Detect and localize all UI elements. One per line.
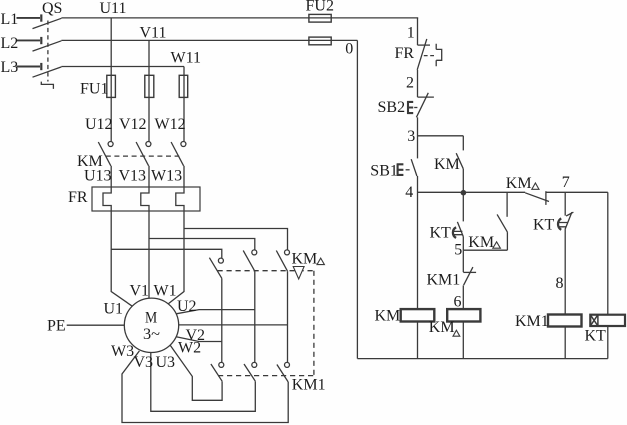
wire L1 lead-in [17, 17, 41, 19]
svg-text:U12: U12 [85, 116, 113, 133]
coil KM-delta rectangle [447, 309, 480, 321]
coil KM rectangle [401, 309, 435, 321]
contact KM-delta rail fixed tick [545, 191, 547, 205]
fuse FU1 phase U cartridge [107, 75, 116, 97]
contactor KM main contacts linkage dashed line [106, 155, 179, 157]
svg-text:7: 7 [562, 174, 570, 191]
svg-text:U3: U3 [156, 354, 176, 371]
wire row L2/V11 to node 0 corner [61, 39, 357, 41]
wire SB2 to node 3 and SB1 [417, 117, 419, 158]
contactor KM main contact V fixed terminal [146, 142, 151, 147]
motor M circle [124, 298, 178, 352]
wire bottom bus [357, 358, 607, 360]
contactor KM-delta contact C fixed terminal [285, 250, 290, 255]
contactor KM-delta contact B fixed terminal [252, 250, 257, 255]
svg-text:V13: V13 [119, 168, 147, 185]
contact KT NC delayed blade [565, 212, 572, 229]
contactor KM main contact U fixed terminal [108, 142, 113, 147]
svg-text:W3: W3 [111, 343, 134, 360]
subscript triangle of KM-delta contacts label [317, 258, 324, 265]
svg-text:L2: L2 [1, 35, 19, 52]
wire KT coil to bus [607, 326, 609, 359]
symbol delta triangle below KM-delta label [293, 267, 304, 280]
switch QS handle hook [41, 82, 53, 89]
contactor KM main contact V blade [136, 142, 149, 166]
fuse FU2 upper cartridge [309, 14, 331, 22]
switch QS pole 2 blade [33, 41, 62, 51]
svg-text:KT: KT [585, 328, 607, 345]
subscript triangle of KM-delta coil label [453, 330, 460, 336]
button SB2 NC contact seat bar [418, 96, 434, 98]
svg-text:KM: KM [429, 319, 455, 336]
contact KM-delta rail NO blade [525, 193, 549, 202]
svg-text:3~: 3~ [143, 326, 160, 343]
subscript triangle of KM-delta mid label [493, 242, 501, 248]
contact KM-delta aux bottom wire [506, 232, 508, 250]
wire phase V to motor V1 [148, 211, 150, 298]
wire column B between contact groups [254, 271, 256, 362]
wire control line down from L1 [417, 18, 419, 45]
svg-text:L1: L1 [1, 11, 19, 28]
wire phase U to motor U1 [111, 211, 132, 306]
wire node 4 rail [418, 191, 526, 193]
button SB1 NO contact blade [411, 159, 417, 176]
contactor KM1 contact A blade [211, 364, 222, 381]
wire node 5 to KM1 NC contact [462, 250, 464, 272]
coil KM1 rectangle [548, 315, 582, 327]
svg-text:KM: KM [506, 175, 532, 192]
contact KM aux NO blade [456, 153, 463, 169]
contactor KM-delta contact B blade [243, 251, 255, 272]
contact KM aux bottom wire [462, 169, 464, 193]
wire phase U tap to delta contact A [111, 249, 222, 258]
contact KT right delay bars [559, 223, 568, 227]
relay FR NC contact seat bar [418, 44, 431, 46]
svg-text:KM1: KM1 [515, 313, 549, 330]
contactor KM1 contact B blade [244, 364, 255, 381]
contactor KM-delta contact A fixed terminal [218, 258, 223, 263]
wire motor V2 to column C [179, 324, 288, 326]
svg-text:V11: V11 [140, 25, 167, 42]
contactor KM main contact W fixed terminal [181, 142, 186, 147]
contact KM1 NC seat bar [463, 271, 476, 273]
wire W13 [183, 166, 185, 187]
interlock dashed line KM-delta to KM1 [313, 271, 315, 376]
contact KM-delta aux NO blade [497, 214, 507, 232]
svg-text:W12: W12 [155, 116, 186, 133]
svg-text:6: 6 [454, 293, 462, 310]
wire node 3 branch to KM aux [418, 135, 464, 137]
wire KM1 coil to bus [564, 327, 566, 359]
wire neutral 0 drop [356, 40, 358, 358]
svg-text:M: M [145, 310, 157, 327]
contactor KM1 linkage dashed line [218, 375, 314, 377]
svg-text:2: 2 [406, 74, 414, 91]
svg-text:0: 0 [345, 41, 353, 58]
switch QS pole 3 fixed contact tick [40, 63, 42, 70]
svg-text:3: 3 [407, 128, 415, 145]
wire KT contact to node 5 [462, 237, 464, 251]
wire KM coil to bus [417, 322, 419, 359]
wire L3 lead-in [17, 66, 41, 68]
wire KM1 contact A to motor U3 loop [170, 345, 222, 400]
wire node 4 to KT contact [462, 192, 464, 221]
switch QS pole 3 blade [33, 67, 62, 77]
coil KT divider and X [590, 315, 598, 326]
wire motor U2 to column B [176, 310, 255, 314]
svg-text:4: 4 [405, 184, 413, 201]
relay FR trip linkage dashes [424, 55, 436, 57]
contactor KM1 contact B fixed terminal [252, 362, 257, 367]
thermal relay FR heater element V [141, 187, 149, 211]
contact KM aux top wire [462, 136, 464, 151]
contact KM1 NC blade [464, 267, 473, 285]
wire SB1 to KM coil [417, 176, 419, 309]
wire V11 drop [148, 40, 150, 141]
wire column A between contact groups [221, 278, 223, 362]
wire rail to right corner [546, 191, 608, 193]
wire V13 [148, 166, 150, 187]
wire W11 drop [183, 67, 185, 142]
coil KT rectangle [590, 315, 625, 326]
wire U13 [110, 166, 112, 187]
contact KT delay arc [453, 227, 456, 238]
wire node 7 branch down [564, 192, 566, 215]
button SB2 actuator E [407, 101, 413, 114]
svg-text:QS: QS [42, 0, 62, 17]
contact KT delay bar [454, 231, 463, 234]
relay FR trip mechanism symbol [436, 44, 442, 67]
wire phase W tap to delta contact C [184, 229, 288, 250]
wire row L3/W11 [61, 66, 184, 68]
svg-text:8: 8 [556, 275, 564, 292]
switch QS pole 1 fixed contact tick [40, 14, 42, 21]
contactor KM-delta linkage dashed line [218, 270, 314, 272]
wire PE lead [67, 324, 125, 326]
wire node 1-2 [417, 70, 419, 97]
contactor KM-delta contact C blade [276, 251, 287, 272]
svg-text:KT: KT [430, 225, 452, 242]
svg-text:KT: KT [533, 217, 555, 234]
svg-text:U2: U2 [177, 298, 197, 315]
wire L2 lead-in [17, 39, 41, 41]
contact KT right delay arc [558, 218, 561, 229]
svg-text:KM1: KM1 [292, 377, 326, 394]
relay FR NC contact blade [417, 39, 427, 70]
switch QS pole 1 blade [33, 18, 62, 28]
contactor KM1 contact C fixed terminal [285, 362, 290, 367]
wire motor W2 to column A [176, 337, 222, 342]
svg-text:FU1: FU1 [80, 81, 108, 98]
fuse FU1 phase V cartridge [145, 75, 154, 97]
svg-text:PE: PE [47, 317, 66, 334]
contactor KM-delta contact A blade [209, 258, 221, 279]
svg-text:SB1: SB1 [370, 162, 398, 179]
wire phase W to motor W1 [168, 211, 184, 304]
svg-text:V3: V3 [134, 354, 154, 371]
button SB1 actuator link dash [406, 169, 410, 171]
svg-text:U1: U1 [104, 301, 124, 318]
svg-text:U11: U11 [100, 0, 127, 17]
svg-text:W13: W13 [151, 168, 182, 185]
svg-text:KM: KM [434, 156, 460, 173]
wire KM1 contact B to motor V3 loop [151, 352, 256, 411]
wire phase V tap to delta contact B [149, 239, 255, 250]
wire column C between contact groups [287, 271, 289, 362]
wire KM-delta coil to bus [462, 322, 464, 359]
contact KM-delta aux stub from rail [506, 192, 508, 217]
button SB2 NC contact blade [416, 93, 428, 118]
svg-text:KM: KM [292, 251, 318, 268]
svg-text:1: 1 [407, 24, 415, 41]
svg-text:FR: FR [68, 189, 88, 206]
contactor KM main contact U blade [98, 142, 111, 166]
svg-text:5: 5 [454, 241, 462, 258]
svg-text:KM: KM [375, 308, 401, 325]
svg-text:W11: W11 [171, 50, 202, 67]
contact KT NO delayed blade [457, 222, 463, 237]
svg-text:W2: W2 [178, 340, 201, 357]
wire U11 drop [110, 18, 112, 141]
svg-text:V12: V12 [119, 116, 147, 133]
wire node 6 to KM-delta coil [462, 285, 464, 309]
button SB2 actuator link dash [414, 107, 417, 109]
contactor KM main contact W blade [171, 142, 184, 166]
thermal relay FR box [92, 187, 200, 211]
svg-text:U13: U13 [84, 168, 112, 185]
svg-text:W1: W1 [154, 283, 177, 300]
thermal relay FR heater element W [176, 187, 184, 211]
fuse FU1 phase W cartridge [179, 75, 188, 97]
button SB1 actuator E [397, 164, 404, 176]
svg-text:SB2: SB2 [378, 99, 406, 116]
svg-text:V1: V1 [130, 283, 150, 300]
wire node 5 branch [463, 249, 507, 251]
switch QS pole 2 fixed contact tick [40, 37, 42, 44]
svg-text:KM1: KM1 [427, 271, 461, 288]
contactor KM1 contact A fixed terminal [219, 362, 224, 367]
switch QS linkage dashed line [47, 21, 49, 82]
wire node 8 to KM1 coil [564, 230, 566, 315]
svg-text:FR: FR [395, 45, 415, 62]
wire right corner down to KT coil [607, 192, 609, 314]
wire row L1/U11 to control corner [61, 17, 418, 19]
svg-text:KM: KM [468, 234, 494, 251]
contact KT NC delayed seat bar [566, 212, 573, 216]
thermal relay FR heater element U [103, 187, 111, 211]
node 4 junction dot [461, 190, 467, 196]
svg-text:FU2: FU2 [306, 0, 334, 15]
contactor KM1 contact C blade [277, 365, 288, 383]
fuse FU2 lower cartridge [309, 37, 331, 45]
wire KM1 contact C to motor W3 loop [122, 351, 288, 423]
svg-text:L3: L3 [1, 59, 19, 76]
subscript triangle of KM-delta rail label [532, 183, 539, 189]
